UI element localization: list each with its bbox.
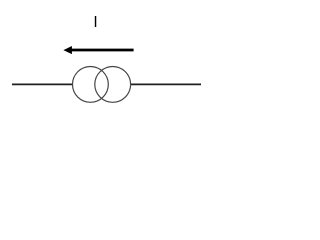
wire right xyxy=(130,83,201,85)
current source circle right xyxy=(95,67,131,103)
wire left xyxy=(12,83,73,85)
current source circle left xyxy=(73,67,109,103)
svg-text:I: I xyxy=(93,14,97,31)
current direction arrow (shaft) xyxy=(71,49,134,52)
current direction arrow (head) xyxy=(63,46,72,54)
